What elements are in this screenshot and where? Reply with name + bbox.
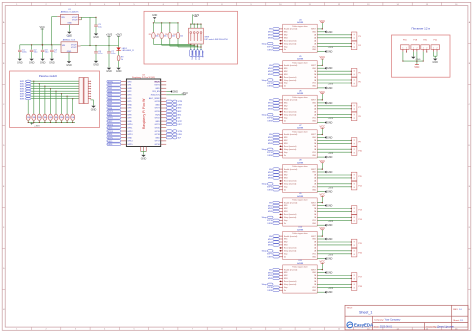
svg-text:VSYS: VSYS	[154, 85, 160, 87]
wire gnd bus	[154, 20, 156, 23]
ground flag	[324, 190, 326, 193]
svg-text:GND: GND	[327, 31, 333, 34]
svg-text:DIR6: DIR6	[108, 144, 114, 146]
svg-text:+3V3: +3V3	[328, 153, 334, 155]
svg-text:Step: Step	[284, 45, 288, 48]
net label EN	[200, 50, 203, 57]
svg-text:Pololu stepper driver: Pololu stepper driver	[292, 165, 308, 168]
LED D1	[116, 48, 134, 53]
svg-text:VCC: VCC	[320, 159, 326, 163]
svg-text:Reset (inverted): Reset (inverted)	[284, 213, 297, 216]
svg-text:MS2 MS2: MS2 MS2	[194, 51, 196, 60]
svg-text:Sheet: 1/1: Sheet: 1/1	[453, 319, 464, 322]
svg-text:Sleep (inverted): Sleep (inverted)	[284, 42, 297, 45]
svg-text:Step: Step	[284, 151, 288, 154]
capacitor C7	[108, 46, 110, 52]
driver U6 A4988	[279, 91, 317, 124]
svg-text:STP3: STP3	[108, 124, 114, 126]
ground	[116, 68, 120, 70]
MCU right net labels	[166, 100, 182, 139]
wire 3V3 rail drops	[95, 45, 96, 46]
svg-text:GND: GND	[116, 70, 122, 73]
supply wires	[402, 51, 427, 64]
svg-text:VOUT: VOUT	[71, 47, 77, 49]
svg-text:R1: R1	[149, 34, 151, 36]
ground flag	[324, 121, 326, 124]
svg-text:Drawn By: Денис Цугунов: Drawn By: Денис Цугунов	[427, 325, 455, 328]
svg-text:Reset (inverted): Reset (inverted)	[284, 76, 297, 79]
ground flag	[324, 67, 326, 70]
svg-text:GP22: GP22	[155, 118, 161, 120]
wire	[118, 61, 120, 68]
svg-text:DIR7: DIR7	[178, 124, 182, 126]
ground U2	[68, 53, 70, 62]
connector P8 motor B	[351, 112, 357, 121]
capacitor C3	[41, 50, 45, 51]
svg-text:+3V3: +3V3	[328, 47, 334, 49]
connector P14 motor B	[351, 215, 357, 224]
svg-text:GND: GND	[327, 205, 333, 208]
svg-text:VCC: VCC	[320, 260, 326, 264]
svg-text:GND: GND	[127, 88, 132, 90]
svg-text:Dir: Dir	[284, 154, 287, 157]
svg-text:P3: P3	[358, 36, 360, 38]
svg-text:Reset (inverted): Reset (inverted)	[284, 247, 297, 250]
svg-text:2: 2	[406, 48, 407, 50]
svg-text:Sleep: Sleep	[262, 43, 268, 45]
svg-text:AMS1117-5.0(KLF): AMS1117-5.0(KLF)	[61, 11, 79, 14]
svg-text:10k: 10k	[60, 117, 63, 119]
svg-text:A4988: A4988	[297, 21, 304, 24]
svg-text:P7: P7	[358, 107, 360, 109]
svg-text:Dir: Dir	[284, 222, 287, 225]
svg-text:Step: Step	[284, 253, 288, 256]
svg-text:GND: GND	[327, 191, 333, 194]
group box: DIP switch config	[144, 11, 238, 64]
svg-text:Sleep (inverted): Sleep (inverted)	[284, 216, 297, 219]
svg-text:GND: GND	[40, 61, 46, 64]
svg-text:Step: Step	[284, 82, 288, 85]
svg-text:P10: P10	[358, 151, 361, 153]
svg-text:2: 2	[416, 48, 417, 50]
svg-text:GP18: GP18	[155, 134, 161, 136]
svg-text:P9: P9	[358, 142, 360, 144]
svg-text:MS1: MS1	[284, 68, 288, 70]
capacitor C4	[50, 50, 54, 51]
svg-text:STP6: STP6	[178, 131, 183, 133]
svg-text:MS2: MS2	[284, 242, 288, 244]
connector P10 motor B	[351, 147, 357, 156]
svg-text:MS3: MS3	[284, 211, 288, 213]
svg-text:GND: GND	[155, 88, 160, 90]
svg-text:MS3: MS3	[284, 178, 288, 180]
svg-text:MS1: MS1	[284, 32, 288, 34]
svg-text:Raspberry Pi Pico W (U3): Raspberry Pi Pico W (U3)	[132, 77, 155, 79]
svg-text:Enable (inverted): Enable (inverted)	[284, 28, 298, 31]
svg-text:STP7: STP7	[178, 121, 183, 123]
svg-text:10k: 10k	[33, 117, 36, 119]
resistor RD4 10k	[177, 23, 179, 33]
svg-text:GND: GND	[93, 63, 99, 66]
svg-text:Sleep: Sleep	[262, 149, 268, 151]
ground flag	[324, 238, 326, 241]
ground	[94, 34, 98, 36]
svg-text:GND: GND	[155, 104, 160, 106]
svg-text:GP21: GP21	[155, 124, 161, 126]
svg-text:MS3: MS3	[284, 245, 288, 247]
driver U6 input net labels	[262, 99, 282, 123]
svg-text:Dir: Dir	[284, 188, 287, 191]
svg-text:P5: P5	[358, 72, 360, 74]
svg-text:+3V3: +3V3	[193, 13, 200, 17]
svg-text:10k: 10k	[27, 117, 30, 119]
svg-text:GND: GND	[127, 137, 132, 139]
svg-text:GND: GND	[93, 36, 99, 39]
svg-text:DIR4: DIR4	[108, 134, 114, 136]
svg-text:MS2: MS2	[284, 35, 288, 37]
ground flag	[324, 31, 326, 34]
svg-text:GND: GND	[416, 59, 421, 61]
svg-text:GND: GND	[29, 61, 35, 64]
resistor RS7 10k	[60, 114, 64, 120]
svg-text:GND: GND	[127, 104, 132, 106]
svg-text:GND: GND	[327, 238, 333, 241]
svg-text:GND: GND	[155, 137, 160, 139]
ground	[107, 68, 111, 70]
svg-text:VIN: VIN	[62, 45, 66, 47]
capacitor C5	[95, 17, 97, 25]
svg-text:GP16: GP16	[155, 144, 161, 146]
svg-text:Sleep (inverted): Sleep (inverted)	[284, 283, 297, 286]
svg-text:GND: GND	[155, 121, 160, 123]
ground	[29, 59, 33, 61]
svg-text:Step: Step	[284, 116, 288, 119]
svg-text:10k: 10k	[44, 117, 47, 119]
svg-text:Enable (inverted): Enable (inverted)	[284, 268, 298, 271]
driver U7 input net labels	[262, 133, 282, 157]
svg-text:10k: 10k	[38, 117, 41, 119]
svg-text:Sleep (inverted): Sleep (inverted)	[284, 79, 297, 82]
connector P17 motor A	[351, 273, 357, 282]
svg-text:Enable (inverted): Enable (inverted)	[284, 168, 298, 171]
driver U8 output wires	[317, 163, 351, 192]
group box: Passive switch	[10, 71, 100, 128]
connector P3 motor A	[351, 32, 357, 41]
svg-text:STP6: STP6	[267, 220, 273, 222]
svg-text:+3V3: +3V3	[116, 32, 123, 36]
driver U5 output wires	[317, 59, 351, 88]
svg-text:MS3: MS3	[178, 108, 182, 110]
MCU U3 Raspberry Pi Pico W	[126, 79, 160, 147]
svg-text:GP10: GP10	[127, 124, 133, 126]
svg-text:GND: GND	[327, 51, 333, 54]
svg-text:VCC: VCC	[320, 124, 326, 128]
connector P12 motor B	[351, 181, 357, 190]
svg-text:VCC: VCC	[320, 226, 326, 230]
ground	[50, 59, 54, 61]
DIP switch SW9	[189, 28, 204, 44]
svg-text:Step: Step	[284, 286, 288, 289]
svg-text:GP20: GP20	[155, 128, 161, 130]
svg-text:MS2: MS2	[284, 140, 288, 142]
svg-text:STP7: STP7	[267, 254, 273, 256]
svg-text:GND: GND	[327, 102, 333, 105]
svg-text:1: 1	[402, 48, 403, 50]
resistor RD2 10k	[161, 23, 163, 33]
svg-text:A4988: A4988	[297, 228, 304, 231]
svg-text:STP5: STP5	[108, 138, 114, 140]
ground flag	[324, 271, 326, 274]
net label MS2	[193, 50, 196, 57]
svg-text:P14: P14	[358, 219, 361, 221]
svg-text:GP26: GP26	[155, 111, 161, 113]
resistor RS6 10k	[54, 114, 58, 120]
svg-text:Reset (inverted): Reset (inverted)	[284, 145, 297, 148]
svg-text:P11: P11	[358, 176, 361, 178]
connector P15 motor A	[351, 239, 357, 248]
svg-text:STP8: STP8	[267, 287, 273, 289]
svg-text:STP6: STP6	[108, 81, 114, 83]
svg-text:DIR1: DIR1	[108, 114, 114, 116]
driver U4 A4988	[279, 20, 317, 53]
driver U9 output wires	[317, 196, 351, 225]
svg-text:MS2: MS2	[284, 175, 288, 177]
svg-text:MS3 MS3: MS3 MS3	[197, 51, 199, 60]
svg-text:GP17: GP17	[155, 141, 161, 143]
svg-text:MS2: MS2	[178, 111, 182, 113]
svg-text:Dir: Dir	[284, 255, 287, 258]
svg-text:GND: GND	[141, 157, 147, 160]
svg-text:VCC: VCC	[320, 90, 326, 94]
net label MS1	[190, 50, 193, 57]
svg-text:DIR8: DIR8	[178, 104, 182, 106]
svg-text:P13: P13	[358, 210, 361, 212]
driver U9 input net labels	[262, 201, 282, 225]
svg-text:MS1: MS1	[284, 239, 288, 241]
svg-text:+3V3: +3V3	[328, 118, 334, 120]
svg-text:Sleep (inverted): Sleep (inverted)	[284, 250, 297, 253]
svg-text:R4: R4	[173, 34, 175, 36]
svg-text:P16: P16	[358, 252, 361, 254]
resistor RS5 10k	[48, 114, 52, 120]
driver U11 input net labels	[262, 268, 282, 292]
MCU pins left	[121, 81, 134, 146]
wire 3V3 rail	[81, 45, 119, 47]
+3V3 power symbol	[31, 122, 33, 124]
svg-text:MS2: MS2	[284, 208, 288, 210]
ground flag	[324, 204, 326, 207]
svg-text:Reset (inverted): Reset (inverted)	[284, 180, 297, 183]
svg-text:Pololu stepper driver: Pololu stepper driver	[292, 232, 308, 235]
svg-text:Enable (inverted): Enable (inverted)	[284, 235, 298, 238]
connector P11 motor A	[351, 172, 357, 181]
svg-text:+3V3: +3V3	[181, 91, 188, 95]
svg-text:Raspberry Pi Pico W: Raspberry Pi Pico W	[142, 98, 146, 129]
svg-text:VCC: VCC	[414, 66, 419, 69]
regulator U1 AMS1117-5.0	[57, 9, 81, 25]
svg-text:+3V3: +3V3	[328, 288, 334, 290]
svg-text:P18: P18	[358, 286, 361, 288]
ground	[91, 99, 94, 101]
junctions and drops to pull resistors	[28, 81, 73, 115]
capacitor C1	[18, 50, 22, 51]
svg-text:GND: GND	[17, 61, 23, 64]
svg-text:Sleep: Sleep	[262, 284, 268, 286]
svg-text:GND: GND	[327, 122, 333, 125]
svg-text:A4988: A4988	[297, 58, 304, 61]
connector P6 motor B	[351, 78, 357, 87]
svg-text:10k: 10k	[71, 117, 74, 119]
connector P13 motor A	[351, 206, 357, 215]
svg-text:RUN: RUN	[155, 114, 160, 116]
svg-text:STP1: STP1	[267, 46, 273, 48]
connector P1 (switch header)	[25, 80, 31, 100]
svg-text:STP4: STP4	[108, 131, 114, 133]
resistor RS4 10k	[43, 114, 47, 120]
svg-text:TITLE:: TITLE:	[347, 307, 353, 309]
connector P18 motor B	[351, 282, 357, 291]
svg-text:STP4: STP4	[267, 152, 273, 154]
svg-text:MS3: MS3	[284, 143, 288, 145]
driver U8 input net labels	[262, 168, 282, 192]
svg-text:Reset (inverted): Reset (inverted)	[284, 110, 297, 113]
svg-text:Dir: Dir	[284, 289, 287, 292]
svg-text:GP27: GP27	[155, 108, 161, 110]
ground flag	[324, 156, 326, 159]
svg-text:GP15: GP15	[127, 144, 133, 146]
svg-text:GND: GND	[173, 91, 179, 94]
svg-text:+3V3: +3V3	[328, 254, 334, 256]
svg-text:3V3(OUT): 3V3(OUT)	[151, 95, 160, 97]
resistor RS9 10k	[71, 114, 75, 120]
svg-text:GP19: GP19	[155, 131, 161, 133]
svg-text:EasyEDA: EasyEDA	[354, 323, 373, 328]
ground	[94, 61, 98, 63]
svg-text:VCC: VCC	[320, 193, 326, 197]
svg-text:REV: 1.0: REV: 1.0	[453, 309, 462, 311]
svg-text:Питание 12 в: Питание 12 в	[411, 27, 430, 31]
svg-text:Company: Your Company: Company: Your Company	[374, 319, 401, 322]
svg-text:Pololu stepper driver: Pololu stepper driver	[292, 25, 308, 28]
svg-text:MS1 MS1: MS1 MS1	[191, 51, 193, 60]
svg-text:GND: GND	[127, 121, 132, 123]
svg-text:+3V3: +3V3	[106, 32, 113, 36]
wire band to net labels	[153, 44, 201, 50]
svg-text:MS2: MS2	[284, 71, 288, 73]
svg-text:Enable (inverted): Enable (inverted)	[284, 133, 298, 136]
svg-text:10k: 10k	[180, 36, 183, 38]
resistor RS8 10k	[65, 114, 69, 120]
connector P16 motor B	[351, 248, 357, 257]
resistor RS2 10k	[32, 114, 36, 120]
ground flag	[166, 91, 170, 93]
svg-text:+3V3: +3V3	[328, 221, 334, 223]
svg-text:VOUT: VOUT	[72, 20, 78, 22]
ground flag	[324, 50, 326, 53]
ground	[432, 52, 434, 57]
regulator U2 AMS1117-3.3	[61, 36, 81, 53]
svg-text:Step: Step	[284, 186, 288, 189]
svg-text:VIN: VIN	[61, 17, 65, 19]
driver U7 output wires	[317, 128, 351, 157]
svg-text:STP5: STP5	[267, 187, 273, 189]
svg-text:GND: GND	[327, 272, 333, 275]
connector P2 (2x8 header)	[79, 77, 83, 103]
svg-text:MS1: MS1	[178, 114, 182, 116]
wire bundle switch rows	[31, 81, 79, 99]
VCC power symbol (bar style)	[415, 64, 419, 66]
ground flag	[324, 291, 326, 294]
svg-text:Date: 2023-06-01: Date: 2023-06-01	[374, 325, 393, 328]
svg-text:P12: P12	[358, 185, 361, 187]
ground U1	[68, 25, 70, 32]
svg-text:GND: GND	[327, 171, 333, 174]
svg-text:R3: R3	[165, 34, 167, 36]
svg-text:VCC: VCC	[320, 19, 326, 23]
svg-text:Enable (inverted): Enable (inverted)	[284, 99, 298, 102]
svg-text:GND: GND	[327, 156, 333, 159]
svg-text:A4988: A4988	[297, 161, 304, 164]
svg-text:STP8: STP8	[178, 101, 183, 103]
svg-text:DIP switch SW-DS-04TH: DIP switch SW-DS-04TH	[205, 38, 229, 41]
svg-text:10k: 10k	[49, 117, 52, 119]
svg-text:GP28: GP28	[155, 101, 161, 103]
svg-text:EN EN: EN EN	[201, 51, 203, 58]
svg-text:Step: Step	[284, 219, 288, 222]
title block	[345, 305, 468, 330]
connector P4 motor B	[351, 41, 357, 50]
svg-text:10k: 10k	[55, 117, 58, 119]
svg-text:DIR5: DIR5	[108, 141, 114, 143]
svg-text:VCC: VCC	[39, 25, 45, 29]
driver U4 input net labels	[262, 28, 282, 52]
svg-text:MS1: MS1	[284, 205, 288, 207]
svg-text:P17: P17	[358, 277, 361, 279]
svg-text:Enable (inverted): Enable (inverted)	[284, 64, 298, 67]
svg-text:3V3_EN: 3V3_EN	[152, 91, 160, 93]
svg-text:MS1: MS1	[284, 272, 288, 274]
ground flag	[324, 257, 326, 260]
svg-text:P15: P15	[358, 243, 361, 245]
driver U4 output wires	[317, 23, 351, 52]
svg-text:Sleep: Sleep	[262, 251, 268, 253]
svg-text:R2: R2	[157, 34, 159, 36]
svg-text:Dir: Dir	[284, 85, 287, 88]
svg-text:DIR2: DIR2	[108, 121, 114, 123]
svg-text:GND: GND	[106, 70, 112, 73]
ground flag	[324, 171, 326, 174]
driver U9 A4988	[279, 193, 317, 226]
connector P7 motor A	[351, 103, 357, 112]
svg-text:Sleep: Sleep	[262, 184, 268, 186]
resistor RD3 10k	[169, 23, 171, 33]
svg-text:GND: GND	[327, 67, 333, 70]
svg-text:Sleep (inverted): Sleep (inverted)	[284, 113, 297, 116]
svg-text:A4988: A4988	[297, 195, 304, 198]
svg-text:GND: GND	[67, 23, 72, 25]
svg-text:STP1: STP1	[108, 111, 114, 113]
driver U5 input net labels	[262, 64, 282, 88]
svg-text:GND: GND	[327, 87, 333, 90]
svg-text:1: 1	[413, 48, 414, 50]
svg-text:+3V3: +3V3	[34, 125, 40, 127]
svg-text:1: 1	[423, 48, 424, 50]
ground	[18, 59, 22, 61]
wire resistor common bus	[28, 121, 75, 123]
svg-text:A4988: A4988	[297, 262, 304, 265]
driver U7 A4988	[279, 125, 317, 158]
svg-text:Pololu stepper driver: Pololu stepper driver	[292, 266, 308, 269]
